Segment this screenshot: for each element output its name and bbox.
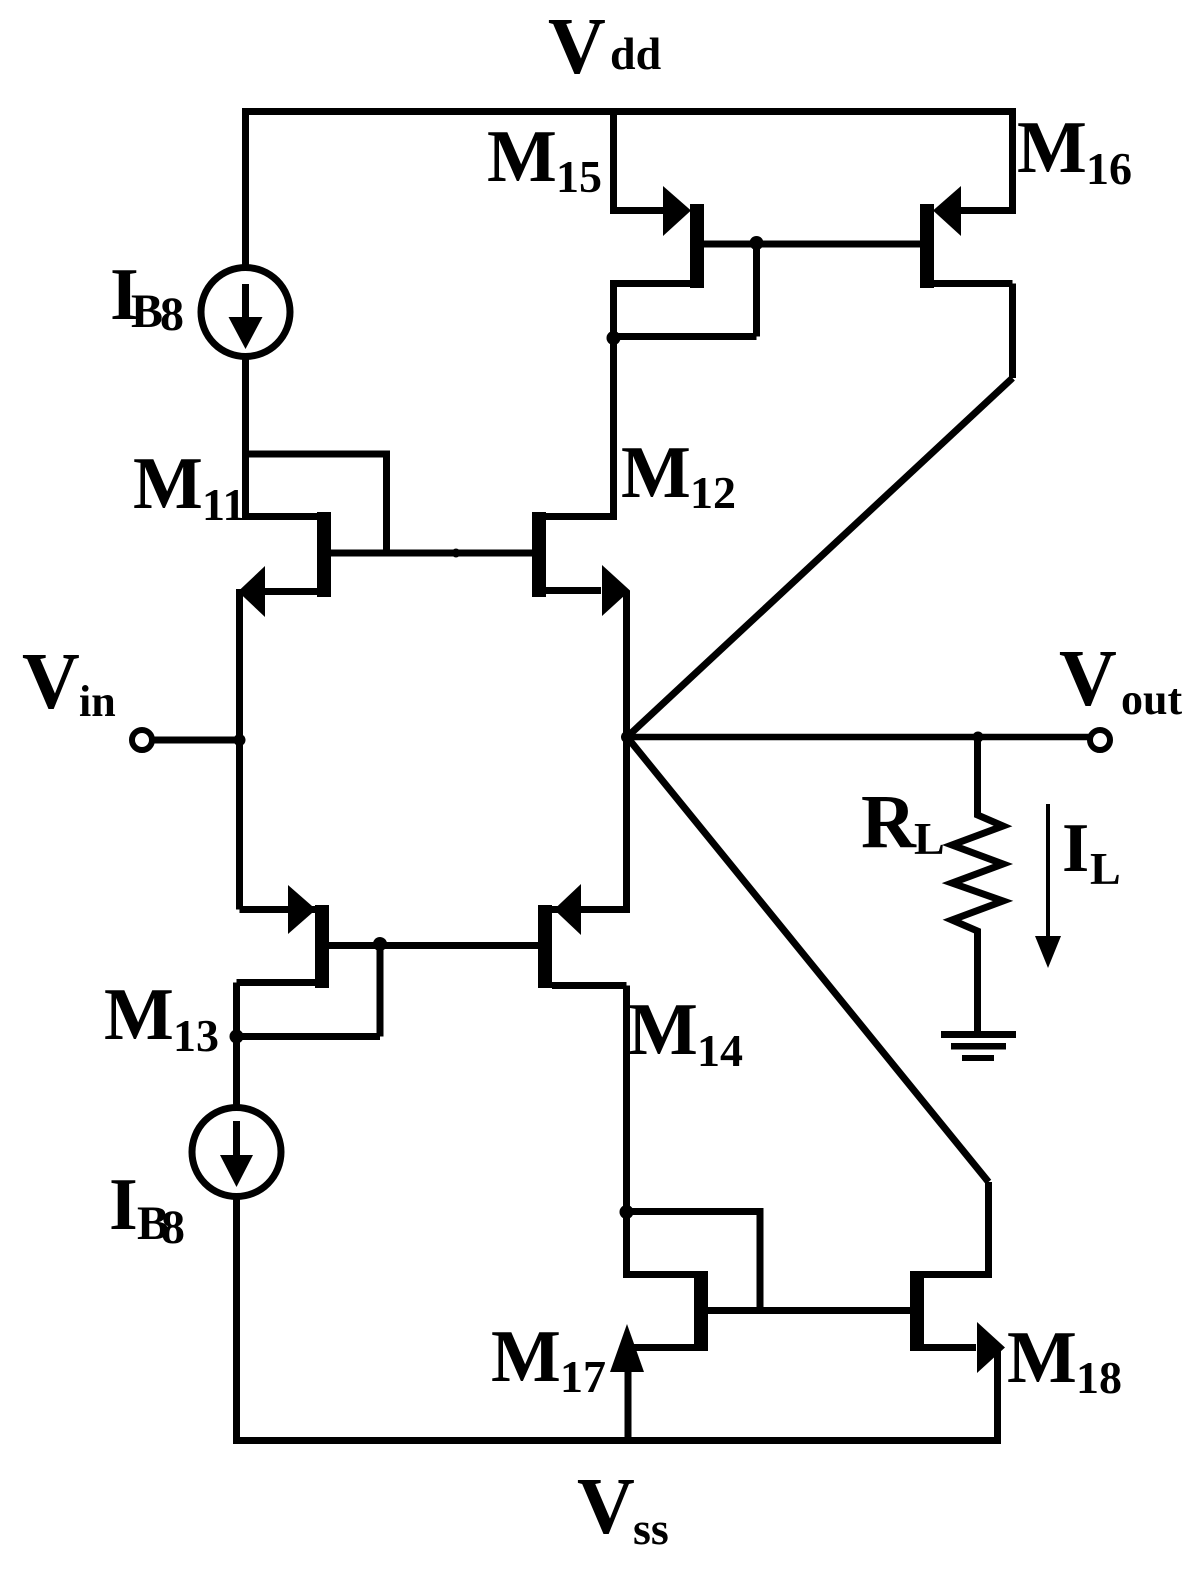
- label M15: [487, 116, 602, 202]
- gate wire M17-M18: [708, 1307, 910, 1314]
- junction dot M15 gate: [750, 236, 764, 250]
- M15 source wire from Vdd: [614, 108, 666, 211]
- svg-text:16: 16: [1086, 143, 1132, 194]
- M18 source vertical to Vss: [994, 1348, 1001, 1442]
- wire IB8 bottom to Vss: [233, 1196, 240, 1441]
- svg-text:18: 18: [1076, 1352, 1122, 1403]
- M17 source vertical to Vss: [625, 1348, 632, 1442]
- Vin wire: [153, 737, 243, 744]
- M13 drain vertical to IB8: [233, 983, 240, 1109]
- svg-text:dd: dd: [610, 28, 662, 79]
- svg-text:17: 17: [560, 1351, 606, 1402]
- svg-text:8: 8: [160, 288, 184, 341]
- svg-text:out: out: [1121, 675, 1182, 724]
- label M14: [628, 989, 743, 1076]
- svg-text:11: 11: [202, 479, 245, 530]
- M12 source vertical to node: [623, 591, 630, 738]
- transistor M11: [238, 512, 331, 617]
- junction dot M13 gate: [373, 937, 387, 951]
- svg-text:12: 12: [690, 467, 736, 518]
- Vdd label: [548, 3, 662, 91]
- svg-text:L: L: [914, 813, 945, 864]
- svg-text:M: M: [133, 443, 203, 525]
- transistor M16: [920, 186, 1013, 288]
- Vin terminal: [132, 730, 152, 750]
- label M17: [491, 1316, 606, 1402]
- svg-text:R: R: [861, 780, 917, 864]
- transistor M18: [910, 1271, 1005, 1373]
- label Vin: [22, 638, 116, 726]
- junction dot M17 drain: [620, 1205, 634, 1219]
- transistor M13: [237, 885, 330, 988]
- wire M12 drain to M15 drain (x614): [610, 280, 617, 520]
- svg-text:M: M: [491, 1316, 561, 1398]
- Vout wire: [627, 734, 1090, 741]
- label M13: [104, 974, 219, 1061]
- junction dot M15 drain: [607, 331, 621, 345]
- svg-text:B: B: [131, 285, 163, 338]
- junction dot gate wire: [452, 549, 461, 558]
- gate wire M13-M14: [329, 942, 538, 949]
- M15 diode loop horizontal: [614, 333, 757, 340]
- svg-text:V: V: [1059, 635, 1117, 723]
- svg-text:8: 8: [161, 1201, 185, 1254]
- M14 source vertical from node: [552, 737, 627, 910]
- diagonal wire M16 drain to output node: [627, 378, 1013, 737]
- label M16: [1017, 107, 1132, 194]
- M17 diode loop: [627, 1212, 761, 1311]
- svg-text:15: 15: [556, 151, 602, 202]
- Vin junction dot: [234, 734, 246, 746]
- svg-text:in: in: [79, 677, 116, 726]
- M11 gate-drain loop: [246, 454, 387, 553]
- svg-text:M: M: [621, 432, 691, 514]
- label RL: [861, 780, 945, 864]
- wire IB8 to M11: [242, 357, 249, 458]
- svg-text:13: 13: [173, 1010, 219, 1061]
- Vout terminal: [1090, 730, 1110, 750]
- svg-text:M: M: [628, 989, 698, 1071]
- svg-text:M: M: [104, 974, 174, 1056]
- svg-text:L: L: [1090, 843, 1121, 894]
- label M11: [133, 443, 245, 530]
- transistor M15: [614, 186, 705, 288]
- M15 diode loop vertical: [753, 244, 760, 337]
- label IL: [1062, 810, 1121, 894]
- label M12: [621, 432, 736, 518]
- svg-text:V: V: [548, 3, 606, 91]
- transistor M12: [532, 512, 630, 616]
- label IB8 top: [110, 254, 184, 341]
- output node: [621, 731, 633, 743]
- label IB8 bottom: [109, 1164, 185, 1254]
- wire Vdd to IB8 top: [242, 108, 249, 267]
- M13 diode loop vertical: [377, 944, 384, 1037]
- Vss label: [577, 1463, 669, 1554]
- RL tap junction: [973, 732, 984, 743]
- label M18: [1007, 1317, 1122, 1403]
- wire M11 source to Vin node to M13: [236, 589, 243, 910]
- Vss rail: [233, 1437, 1001, 1444]
- svg-text:M: M: [487, 116, 557, 198]
- M11 drain stub: [246, 450, 318, 517]
- M13 source stub: [240, 906, 316, 913]
- M14 drain vertical to M17: [627, 986, 695, 1275]
- diagonal wire node to M18 drain: [627, 737, 989, 1182]
- svg-text:M: M: [1017, 107, 1087, 189]
- svg-text:V: V: [577, 1463, 635, 1551]
- M16 source wire from Vdd: [961, 108, 1013, 211]
- transistor M14: [538, 884, 627, 988]
- label Vout: [1059, 635, 1182, 724]
- current source IB8 (top): [201, 268, 290, 357]
- current source IB8 (bottom): [192, 1108, 281, 1197]
- gate wire M15-M16: [704, 241, 920, 248]
- svg-text:ss: ss: [633, 1503, 669, 1554]
- M18 drain vertical: [924, 1182, 989, 1275]
- gate wire M11-M12: [331, 550, 532, 557]
- ground: [941, 1031, 1016, 1061]
- IL current arrow: [1035, 804, 1061, 968]
- Vdd rail: [242, 108, 1016, 115]
- svg-text:V: V: [22, 638, 80, 726]
- M12 top stub: [546, 513, 614, 520]
- svg-text:M: M: [1007, 1317, 1077, 1399]
- M13 diode loop horizontal: [237, 1033, 381, 1040]
- svg-text:14: 14: [697, 1025, 743, 1076]
- transistor M17: [610, 1271, 708, 1372]
- junction dot M13 drain: [230, 1030, 244, 1044]
- svg-text:I: I: [109, 1164, 138, 1246]
- svg-text:I: I: [1062, 810, 1089, 887]
- M16 drain vertical: [1009, 284, 1016, 379]
- resistor RL: [952, 737, 1003, 1032]
